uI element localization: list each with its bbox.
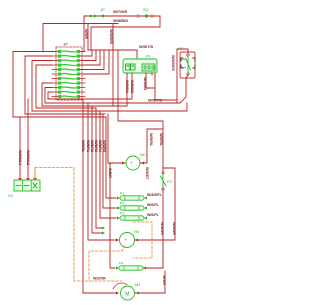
svg-text:*: * [131, 162, 133, 168]
svg-text:W/6/FL: W/6/FL [147, 213, 160, 217]
dashed left long drop [74, 168, 122, 281]
fuse row1 [117, 192, 147, 201]
fuse F3 left arrow [117, 217, 120, 220]
svg-text:KT: KT [178, 46, 184, 51]
svg-text:W/4/5/7: W/4/5/7 [145, 167, 149, 179]
fuse F4 inner [124, 266, 138, 270]
wire X2 pin3 orange up [34, 168, 36, 181]
wire band y108 [36, 107, 96, 109]
wire relay hook to KT feed [155, 88, 177, 100]
motor NC right connect [141, 162, 144, 165]
svg-text:FV: FV [167, 179, 172, 184]
wire relay pin2 down [131, 77, 133, 99]
fuse F2 body [120, 206, 144, 210]
wire corner right down [159, 16, 161, 27]
contactor KT brackets [181, 58, 195, 68]
contactor KT feed up [177, 49, 188, 103]
node junction dot [102, 15, 105, 18]
wire relay pin3 hook [146, 74, 155, 88]
contactor KT pin bottom [187, 73, 189, 75]
fuse F2 right arrow [144, 207, 147, 210]
arrow stub x96 [102, 227, 105, 230]
wire left pin row9 [45, 88, 52, 104]
dashed NV drop [89, 246, 125, 281]
contactor KT box [180, 52, 195, 78]
wire trunk x83 to motor M [83, 99, 116, 293]
arrow stub x92 [102, 232, 105, 235]
wire trunk x103 to row2 [103, 114, 116, 208]
motor M left connect [116, 292, 119, 295]
valve NV circle [120, 233, 135, 248]
wire relay pin1 down [126, 77, 128, 106]
fuse F2 left arrow [117, 207, 120, 210]
connector 1P dashed box [56, 47, 82, 100]
connector SC pin circle right [151, 15, 153, 17]
svg-text:X2: X2 [8, 193, 14, 198]
contactor KT blade [186, 56, 191, 73]
wire relay feed y50 [88, 49, 137, 51]
contactor KT pin top [187, 54, 189, 56]
wire stair x100 to row4 [81, 50, 100, 65]
wire drop bus A to pin row1 [81, 16, 84, 52]
wire box right leg [163, 121, 175, 240]
terminal X2 cells [23, 180, 32, 191]
svg-text:K1: K1 [146, 54, 152, 59]
wire band y99 [48, 98, 132, 100]
svg-text:W/2/OR: W/2/OR [93, 277, 106, 281]
wire mid feed corner [118, 120, 163, 122]
svg-text:W/6/B/D5: W/6/B/D5 [171, 55, 175, 71]
motor M right diag [135, 292, 165, 294]
connector 1P pins [58, 50, 80, 98]
contactor KT contact ticks [183, 60, 186, 68]
fuse F4 left arrow [116, 267, 119, 270]
relay KM contact block [142, 64, 155, 71]
relay KM coil b [131, 64, 136, 70]
motor NC right stub [140, 162, 147, 164]
wire band y103 [45, 102, 180, 104]
svg-text:W/9/B/D: W/9/B/D [113, 18, 128, 23]
wire band y106 [42, 105, 127, 107]
motor M top arc [113, 283, 127, 289]
dashed C shape right of NV [133, 222, 152, 258]
motor NC circle [126, 156, 140, 170]
valve NV left connect [116, 239, 119, 242]
wire M right column [164, 271, 166, 293]
fuse row4 [116, 262, 163, 271]
fuse row3 [117, 212, 147, 221]
fuse F1 body [120, 196, 144, 200]
wire relay top pin [136, 50, 138, 59]
wire X2 pin2 up [27, 99, 29, 180]
wire drop x113 [112, 24, 114, 107]
svg-text:M: M [125, 292, 129, 298]
svg-text:W/5/R4: W/5/R4 [98, 140, 102, 152]
wire left pin row2 [25, 56, 52, 114]
svg-text:W/5/R1: W/5/R1 [86, 140, 90, 152]
wire x110 link to fuse4 [110, 166, 115, 269]
svg-text:W/6/R/L: W/6/R/L [159, 133, 163, 147]
svg-text:W/5/7/S: W/5/7/S [139, 44, 154, 49]
wire trunk x88 to valve NV [88, 103, 116, 240]
svg-text:1P: 1P [63, 42, 68, 47]
svg-text:SC: SC [143, 7, 149, 12]
fuse F4 right arrow [143, 267, 146, 270]
switch FV blade [161, 174, 167, 188]
wire stair x92 to row2 [81, 50, 92, 56]
svg-text:W/9/B/1: W/9/B/1 [125, 80, 129, 93]
svg-text:W/8/B/L2: W/8/B/L2 [26, 150, 30, 165]
svg-text:W/5/B/3: W/5/B/3 [143, 77, 147, 90]
arrow start bus A [90, 15, 98, 18]
wire trunk x96 stub [96, 108, 102, 228]
wire FV down [162, 190, 164, 268]
svg-text:W/9/B/05: W/9/B/05 [109, 29, 113, 44]
relay KM box [123, 59, 157, 73]
wire drop x88 to relay feed [87, 24, 89, 51]
wire NV right [135, 240, 175, 268]
wire KT bottom to band [180, 75, 188, 103]
wire band y117 [13, 116, 106, 118]
fuse F1 right arrow [144, 197, 147, 200]
wire left pin row4 [36, 65, 52, 108]
wire box left leg [141, 129, 147, 163]
wire trunk x100 to row3 [100, 111, 116, 218]
arrow link x110 [109, 163, 112, 166]
wire drop B left to connector [43, 24, 56, 52]
svg-text:W/6/FL: W/6/FL [147, 203, 160, 207]
wire NC left feed [108, 114, 125, 163]
svg-text:NC: NC [140, 152, 146, 157]
wire drop x122 to mid feed [117, 50, 119, 121]
wire top bus B [43, 23, 118, 25]
wire left pin row10 [48, 92, 52, 99]
terminal X2 cell marks [16, 183, 37, 188]
wire stair x109 to row6 [81, 50, 109, 74]
svg-text:W/5/R2: W/5/R2 [90, 140, 94, 152]
svg-text:W/3/5/FL: W/3/5/FL [147, 193, 163, 197]
svg-text:W/5/R: W/5/R [162, 275, 166, 285]
terminal X2 box [14, 180, 40, 191]
wire far left feed [13, 52, 56, 118]
motor M circle [121, 286, 135, 300]
arrow M right [136, 292, 139, 295]
svg-text:W/4/5/R: W/4/5/R [160, 222, 164, 235]
connector 1P pin stubs [52, 52, 85, 97]
motor NC left connect [122, 162, 125, 165]
svg-text:W/7/5/S: W/7/5/S [113, 9, 128, 14]
svg-text:W/5/R5: W/5/R5 [102, 140, 106, 152]
wire left pin row3 [32, 61, 52, 112]
wire band y114 [25, 113, 105, 115]
wire stair x96 to row3 [81, 50, 96, 61]
svg-text:W/6/5/R: W/6/5/R [172, 222, 176, 235]
fuse F4 body [119, 266, 143, 270]
svg-text:F1: F1 [120, 192, 124, 196]
wire trunk x106 to row1 [106, 117, 116, 198]
wire X2 pin1 up [19, 117, 21, 180]
fuse F1 left arrow [117, 197, 120, 200]
svg-text:W/5/R: W/5/R [108, 168, 112, 178]
fuse F1 inner [125, 196, 139, 200]
svg-text:W/9/B/2: W/9/B/2 [130, 80, 134, 93]
relay KM coil a [126, 64, 131, 70]
wire box y129 [147, 128, 163, 130]
terminal X2 pin marks [19, 178, 36, 180]
fuse F3 body [120, 216, 144, 220]
connector SC dot [145, 14, 148, 17]
svg-text:W/5/R3: W/5/R3 [94, 140, 98, 152]
wire F4 right [143, 267, 163, 269]
fuse F2 inner [125, 206, 139, 210]
relay KM contact squares [144, 66, 154, 69]
wire left pin row8 [42, 83, 52, 106]
svg-text:W/8/B/L1: W/8/B/L1 [18, 150, 22, 165]
svg-text:NV: NV [134, 229, 140, 234]
svg-text:F2: F2 [120, 202, 124, 206]
connector SC pin circle left [137, 15, 139, 17]
svg-text:*: * [125, 239, 127, 245]
svg-text:F4: F4 [119, 262, 123, 266]
switch FV pin top [162, 172, 164, 174]
svg-text:W/9/R: W/9/R [84, 29, 88, 39]
svg-text:W/5/R/L: W/5/R/L [149, 133, 153, 147]
fuse F3 inner [125, 216, 139, 220]
fuse row2 [117, 202, 147, 211]
relay pin stubs [127, 73, 152, 77]
wire stair x104 to row5 [81, 50, 104, 70]
wire U return leg [91, 27, 160, 50]
dashed top horizontal [35, 167, 74, 169]
svg-text:F3: F3 [120, 212, 124, 216]
svg-text:M1: M1 [135, 282, 141, 287]
wire trunk x92 stub [92, 106, 102, 233]
relay KM coil dots [127, 65, 134, 67]
wire band y111 [32, 103, 187, 111]
svg-text:W/8/BL: W/8/BL [81, 140, 85, 153]
wire top bus A [84, 15, 160, 17]
valve NV right arrow [135, 239, 138, 242]
svg-text:1P: 1P [100, 7, 105, 12]
fuse F3 right arrow [144, 217, 147, 220]
switch FV pin bottom [162, 188, 164, 190]
